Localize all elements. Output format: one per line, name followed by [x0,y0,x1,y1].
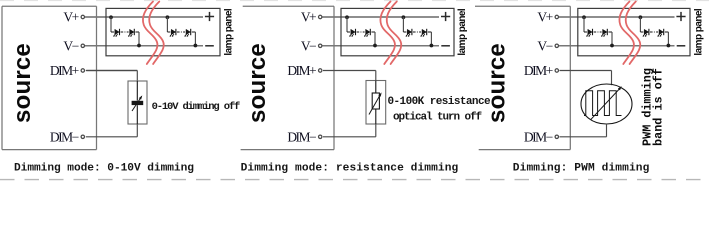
svg-text:DIM−: DIM− [287,129,316,144]
svg-text:optical turn off: optical turn off [393,111,483,123]
svg-text:lamp panel: lamp panel [223,8,234,56]
svg-text:V−: V− [537,38,552,53]
svg-text:Dimming: PWM dimming: Dimming: PWM dimming [513,162,650,174]
svg-text:Dimming mode: resistance dimmi: Dimming mode: resistance dimming [241,162,459,174]
svg-text:source: source [244,43,271,123]
svg-text:V+: V+ [63,10,78,25]
svg-text:source: source [484,43,511,123]
svg-text:DIM−: DIM− [50,129,79,144]
svg-text:lamp panel: lamp panel [694,8,705,56]
svg-text:V+: V+ [537,10,552,25]
svg-text:V−: V− [301,38,316,53]
svg-text:V+: V+ [301,10,316,25]
svg-text:lamp panel: lamp panel [457,8,468,56]
svg-text:band is off: band is off [652,68,666,146]
svg-text:V−: V− [63,38,78,53]
svg-text:0-10V dimming off: 0-10V dimming off [152,101,240,113]
svg-text:DIM+: DIM+ [287,63,316,78]
svg-text:source: source [9,43,36,123]
svg-text:0-100K resistance: 0-100K resistance [388,96,491,108]
svg-text:Dimming mode: 0-10V dimming: Dimming mode: 0-10V dimming [14,162,194,174]
svg-text:DIM+: DIM+ [524,63,553,78]
svg-text:DIM+: DIM+ [50,63,79,78]
svg-text:DIM−: DIM− [524,129,553,144]
